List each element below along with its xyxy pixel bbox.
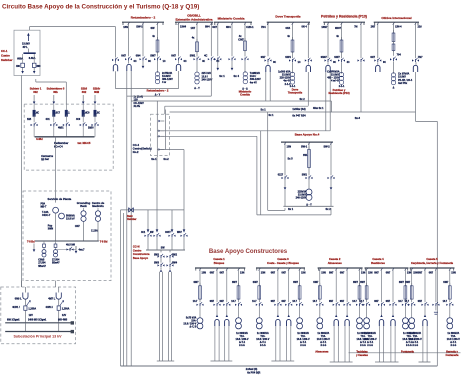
svg-text:0N7: 0N7 bbox=[429, 271, 434, 274]
transformer T-G3 bbox=[243, 72, 247, 84]
svg-text:Δ-Y-1: Δ-Y-1 bbox=[260, 341, 267, 344]
cable termination G4b bbox=[379, 315, 383, 327]
svg-text:500kVA: 500kVA bbox=[66, 214, 75, 217]
cable G5a down to feeder E2 (pair) bbox=[326, 72, 330, 131]
bus Base Apoyo No.4 bbox=[281, 141, 333, 143]
svg-text:Bastidores: Bastidores bbox=[371, 261, 385, 265]
cable termination G6a bbox=[376, 65, 380, 72]
value label G1 cable 1x(3x4)120 CU-15kV XLPE bbox=[134, 95, 145, 108]
svg-text:0N7: 0N7 bbox=[282, 271, 287, 274]
transformer T-G6 bbox=[391, 73, 395, 85]
bus panel 480V bbox=[35, 136, 95, 138]
value label T-G4 bbox=[278, 70, 291, 85]
svg-text:13.8 kV: 13.8 kV bbox=[66, 218, 75, 221]
cable pair x120.5/123.5 down to main bottom bus bbox=[121, 210, 124, 366]
svg-text:0N4: 0N4 bbox=[136, 55, 141, 58]
switch S-G4a bbox=[261, 56, 277, 64]
svg-text:0N7: 0N7 bbox=[370, 56, 375, 59]
value label T-G5a (below) bbox=[409, 332, 422, 347]
wire riser x172 to CC-N bbox=[171, 210, 173, 231]
svg-text:Techistas: Techistas bbox=[356, 351, 368, 354]
svg-text:SW7: SW7 bbox=[253, 282, 259, 284]
svg-text:T13-: T13- bbox=[260, 335, 265, 338]
svg-text:0C: 0C bbox=[148, 61, 151, 63]
svg-text:0C: 0C bbox=[97, 112, 100, 114]
wire drop G3a bbox=[319, 268, 326, 286]
svg-text:1x 300kVA: 1x 300kVA bbox=[297, 332, 309, 335]
value label Padbwrxbar 6Cv-C4 bbox=[54, 142, 68, 148]
value label T-G3d (below) bbox=[356, 332, 369, 347]
svg-text:1x 300kVA: 1x 300kVA bbox=[317, 332, 329, 335]
bus bar inside CC-1 bbox=[23, 49, 35, 55]
svg-text:SW-1: SW-1 bbox=[301, 146, 308, 149]
svg-text:225kVA: 225kVA bbox=[298, 190, 307, 193]
value labels above bus 1 bbox=[7, 319, 68, 322]
switch S-G6a bbox=[370, 56, 386, 64]
svg-text:7N: 7N bbox=[354, 25, 357, 28]
fuse F-G1d bbox=[232, 282, 240, 302]
cable G4c down to group bottom bbox=[391, 326, 395, 362]
switch S-G5b bbox=[334, 56, 350, 64]
svg-text:SW7: SW7 bbox=[313, 282, 319, 284]
svg-text:4 w/ 4Y: 4 w/ 4Y bbox=[331, 80, 340, 83]
switch S-G2b bbox=[190, 55, 206, 63]
svg-text:1,200A: 1,200A bbox=[62, 307, 70, 310]
fuse F-G2d bbox=[293, 282, 301, 302]
switch S-G3c bbox=[340, 301, 351, 317]
wire links between buses bbox=[25, 323, 58, 332]
svg-text:SW1: SW1 bbox=[190, 55, 196, 58]
svg-text:0217: 0217 bbox=[278, 173, 284, 176]
svg-text:27.504: 27.504 bbox=[52, 258, 60, 261]
svg-text:Almacenes: Almacenes bbox=[328, 261, 342, 265]
breaker CB-S2 (1200A) column 2 bbox=[46, 281, 70, 323]
switch S-G2d bbox=[292, 301, 303, 317]
cable termination G1b bbox=[215, 315, 219, 327]
svg-text:Medición: Medición bbox=[92, 204, 104, 208]
fuse F-G3d bbox=[353, 282, 361, 302]
svg-text:0N9 L: 0N9 L bbox=[15, 297, 22, 300]
switch S-G2a bbox=[252, 301, 263, 317]
value label bottom cable 2x3wd(3) 6x P54 B(R bbox=[246, 368, 261, 374]
svg-text:Bank: Bank bbox=[80, 204, 87, 208]
group label Caseta 5 / Carpintería, Herrería y Fontanería bbox=[411, 257, 454, 265]
value label T-G2 bbox=[202, 72, 213, 81]
svg-text:Constructora: Constructora bbox=[133, 252, 150, 256]
svg-text:1kB: 1kB bbox=[27, 119, 32, 121]
svg-text:6.3kA: 6.3kA bbox=[29, 57, 36, 60]
cable G3b down to group bottom bbox=[334, 326, 338, 362]
wire G5 drop b bbox=[335, 22, 342, 40]
value label T-BA4 bbox=[296, 190, 307, 199]
svg-text:y Casetas: y Casetas bbox=[356, 354, 368, 357]
svg-text:0N7: 0N7 bbox=[386, 271, 391, 274]
wire drop G4d bbox=[405, 268, 412, 286]
svg-text:13.8 /: 13.8 / bbox=[250, 75, 257, 78]
svg-text:Base Apoyo: Base Apoyo bbox=[133, 256, 149, 260]
label SW near CC-N bus bbox=[161, 248, 166, 250]
cable G5b down to group bottom bbox=[423, 326, 427, 362]
wire drop G3c bbox=[340, 268, 348, 302]
feeder group G1 bus: Retumbadero - 2 bbox=[122, 16, 164, 25]
feeder wire E1 (y112) to G6 drop c corner bbox=[170, 111, 416, 113]
svg-text:13N: 13N bbox=[413, 271, 418, 274]
wire G2 drop c bbox=[205, 22, 212, 56]
wire G4 drop c bbox=[302, 22, 310, 58]
svg-text:MB-T: MB-T bbox=[41, 206, 48, 209]
value label T-13A 44CC-T bbox=[42, 211, 51, 217]
wire link below T-8 bus bbox=[57, 249, 76, 251]
wire H1 (y210.4) to BA4 bottom left bbox=[268, 208, 285, 210]
svg-text:Ministerio Comida: Ministerio Comida bbox=[218, 16, 245, 20]
svg-text:Cx3P5kVA: Cx3P5kVA bbox=[327, 70, 340, 73]
svg-text:13.8kV/: 13.8kV/ bbox=[162, 75, 171, 78]
switch S-rail bbox=[112, 57, 119, 61]
fuse F-G3a bbox=[313, 282, 321, 302]
wire G5c down to feeder E1 bbox=[360, 62, 362, 112]
bus main bottom (y366) bbox=[121, 365, 438, 367]
wire riser x148 to CC-N bbox=[147, 210, 149, 231]
svg-text:2-1-b: 2-1-b bbox=[360, 344, 366, 347]
cable CC-N 1 down to bottom bbox=[159, 272, 162, 361]
panel box CC-1 Cuatro Switcher bbox=[14, 30, 40, 75]
wire drop G2c bbox=[282, 268, 290, 302]
svg-text:T13-: T13- bbox=[406, 335, 411, 338]
cable termination G4c bbox=[391, 315, 395, 327]
bus Caseta group 4 bbox=[365, 268, 409, 271]
svg-text:Sx 1: Sx 1 bbox=[269, 114, 275, 117]
svg-text:Sx 2: Sx 2 bbox=[326, 208, 332, 211]
svg-text:4w 4Y: 4w 4Y bbox=[283, 80, 290, 83]
svg-text:609 1C/gw1: 609 1C/gw1 bbox=[7, 320, 20, 322]
switch S-G2c bbox=[282, 301, 293, 317]
svg-text:13.8 / 230-V: 13.8 / 230-V bbox=[409, 338, 422, 341]
svg-text:480-120V: 480-120V bbox=[162, 78, 173, 81]
wire from CC-1 area into panel branch 3 bbox=[36, 79, 67, 104]
svg-text:Cuatro: Cuatro bbox=[1, 54, 10, 58]
svg-text:0C: 0C bbox=[134, 61, 137, 63]
bus Caseta group 2 bbox=[256, 268, 305, 271]
wire G2 drop b bbox=[191, 22, 198, 42]
svg-text:13.7: 13.7 bbox=[352, 301, 357, 303]
switch S-G3d bbox=[352, 301, 363, 317]
transformer T-G1 2x75kVA bbox=[155, 72, 159, 84]
svg-text:0N07: 0N07 bbox=[321, 56, 328, 59]
svg-text:C3kB: C3kB bbox=[38, 258, 44, 261]
svg-text:CC-4: CC-4 bbox=[133, 143, 140, 147]
value label T-G1d (below) bbox=[235, 332, 248, 347]
wire riser x157 junction to CC-N bbox=[156, 157, 158, 231]
wire G3 drop b bbox=[226, 22, 233, 56]
svg-text:13A-: 13A- bbox=[191, 320, 196, 323]
net label fuera servicio (red) bbox=[127, 215, 137, 221]
transformer T-G2d bbox=[297, 318, 303, 329]
load arrow G1b bbox=[142, 61, 145, 69]
svg-text:13.8 / 230-V: 13.8 / 230-V bbox=[297, 338, 310, 341]
panel box distribution (480V) bbox=[24, 104, 113, 170]
svg-text:13N: 13N bbox=[261, 271, 266, 274]
cable G2c down to group bottom bbox=[287, 326, 291, 361]
feeder wire E3 (y136.3) bbox=[157, 135, 257, 137]
transformer T-G3a bbox=[317, 318, 323, 329]
svg-text:Switcher: Switcher bbox=[1, 58, 13, 62]
transformer T-G4d bbox=[403, 318, 409, 329]
CC-N feeder drop 2 (switch + cable down) bbox=[167, 250, 178, 272]
cable G1c down to group bottom bbox=[225, 326, 229, 361]
cable termination G3c bbox=[345, 315, 349, 327]
svg-text:CC-N: CC-N bbox=[133, 245, 140, 249]
svg-text:2-1-b: 2-1-b bbox=[300, 344, 306, 347]
fuse F-G6 (double) bbox=[392, 30, 395, 56]
switch S-G5a bbox=[321, 56, 337, 64]
svg-text:7x98kVA: 7x98kVA bbox=[250, 72, 260, 75]
svg-text:Almacenes: Almacenes bbox=[315, 351, 329, 354]
svg-text:C/N-4: C/N-4 bbox=[395, 25, 402, 28]
svg-text:2N7: 2N7 bbox=[371, 25, 376, 28]
svg-text:6x P54 B(R: 6x P54 B(R bbox=[247, 371, 260, 374]
svg-text:C2N-1: C2N-1 bbox=[246, 26, 254, 29]
cable termination G4a bbox=[266, 65, 270, 72]
branch breakers inside panel bbox=[33, 104, 100, 122]
svg-text:0N7: 0N7 bbox=[374, 301, 379, 303]
svg-text:Caseta 4: Caseta 4 bbox=[372, 257, 384, 261]
svg-text:CU-15kV: CU-15kV bbox=[134, 102, 145, 105]
svg-text:Pxp: Pxp bbox=[48, 224, 53, 227]
switch S-G2a bbox=[171, 55, 187, 63]
bus Caseta group 1 bbox=[195, 268, 245, 271]
svg-text:Δ-Y-1: Δ-Y-1 bbox=[450, 341, 457, 344]
svg-text:0N7: 0N7 bbox=[374, 271, 379, 274]
feeder wire L2 (y96.1) bbox=[127, 95, 212, 97]
svg-text:Fontanería: Fontanería bbox=[446, 354, 459, 357]
svg-text:13.8 / 230-V: 13.8 / 230-V bbox=[317, 338, 330, 341]
terminal square bus 2 bbox=[71, 330, 74, 333]
svg-text:T13-: T13- bbox=[361, 335, 366, 338]
svg-text:220-120V: 220-120V bbox=[280, 77, 291, 80]
wire G3 drop a bbox=[212, 22, 218, 56]
svg-text:5x75 kVA: 5x75 kVA bbox=[186, 316, 197, 319]
breaker CB-B inside CC-1 bbox=[32, 54, 41, 68]
section box Subestacion Principal 13 kV bbox=[1, 287, 76, 344]
switch on link line bbox=[67, 247, 74, 251]
svg-text:0N7: 0N7 bbox=[271, 301, 276, 303]
svg-text:Sx-3: Sx-3 bbox=[355, 117, 361, 120]
wire: E1 drop x267.7 down to H1 bbox=[267, 112, 269, 210]
label Servicio de Planta bbox=[48, 197, 72, 201]
value label T-G4d (below) bbox=[402, 332, 415, 347]
svg-text:13.8 /: 13.8 / bbox=[202, 75, 209, 78]
net label Dove Transportis (below T-G4) bbox=[288, 85, 303, 95]
switch S-G1a bbox=[121, 55, 137, 63]
group label Caseta 3 / Costa - Caseta y Bloques bbox=[267, 257, 299, 265]
svg-text:Grounding: Grounding bbox=[77, 201, 91, 205]
svg-text:30M: 30M bbox=[94, 90, 100, 94]
net label Sx-3 at G5c tee bbox=[355, 117, 361, 120]
svg-text:0C: 0C bbox=[383, 62, 386, 64]
svg-text:Δ-Y-1: Δ-Y-1 bbox=[412, 341, 419, 344]
value label T-G5 bbox=[327, 70, 340, 82]
svg-text:Sx 1: Sx 1 bbox=[288, 208, 294, 211]
wire BA4c to bottom bus bbox=[330, 180, 333, 207]
transformer T-G4a bbox=[364, 318, 370, 329]
net label Sx 1 at E1 tee bbox=[261, 108, 267, 111]
label Grounding Bank bbox=[77, 201, 91, 208]
wire: E2 drop x260.7 down to H2 bbox=[260, 131, 262, 215]
wire G1 drop b bbox=[142, 22, 144, 56]
svg-text:2-1-1: 2-1-1 bbox=[290, 85, 296, 88]
svg-text:Retumbadero - 2: Retumbadero - 2 bbox=[131, 16, 156, 20]
svg-text:0N4: 0N4 bbox=[286, 27, 291, 30]
svg-text:1N7: 1N7 bbox=[191, 27, 196, 30]
svg-text:Sx-2: Sx-2 bbox=[163, 158, 169, 161]
value label 13.8kV 3P L bbox=[22, 43, 30, 50]
svg-text:6x P47 R54: 6x P47 R54 bbox=[292, 115, 306, 118]
svg-text:44CC-T: 44CC-T bbox=[42, 214, 51, 217]
cable termination G5a bbox=[326, 65, 330, 72]
svg-text:Centro: Centro bbox=[133, 248, 142, 252]
wire H2 (y214.9) to BA4 bottom right bbox=[257, 208, 331, 215]
wire G4 drop b bbox=[286, 22, 294, 40]
switch S-G5c bbox=[432, 302, 439, 310]
bus segment (cable landing) Caseta group 4 bbox=[375, 361, 399, 363]
bus Caseta group 5 bbox=[410, 268, 455, 271]
svg-text:4CB1 /: 4CB1 / bbox=[46, 306, 54, 309]
wire drop G1d bbox=[238, 268, 245, 286]
svg-text:3WN: 3WN bbox=[48, 228, 54, 231]
load arrow G3a + net label Sx 1 bbox=[217, 61, 226, 78]
value label T-G6 bbox=[398, 73, 413, 85]
svg-text:Clínica Internacional: Clínica Internacional bbox=[381, 16, 411, 20]
svg-text:Sx 2: Sx 2 bbox=[300, 98, 306, 101]
transformer T-G1d bbox=[236, 318, 242, 329]
value label load 2 49.5kW bbox=[52, 258, 60, 264]
svg-text:13N: 13N bbox=[202, 271, 207, 274]
svg-text:13.8 / 230-V: 13.8 / 230-V bbox=[235, 338, 248, 341]
switch S-G4b bbox=[285, 56, 301, 64]
value label T-G4a (below) bbox=[364, 332, 377, 347]
svg-text:2x75kVA: 2x75kVA bbox=[162, 72, 172, 75]
svg-text:0N 4: 0N 4 bbox=[302, 25, 308, 28]
svg-text:T13-: T13- bbox=[321, 335, 326, 338]
svg-text:1C: 1C bbox=[298, 62, 301, 64]
switch S-G1b bbox=[136, 55, 152, 63]
transformer T-G1a bbox=[197, 318, 203, 329]
svg-text:Transportis: Transportis bbox=[288, 91, 303, 95]
net label below T-G2 bbox=[194, 87, 200, 90]
svg-text:4w/ P5x: 4w/ P5x bbox=[398, 82, 408, 85]
svg-text:Bloques: Bloques bbox=[214, 261, 225, 265]
switch S-G5d bbox=[443, 301, 454, 317]
load branch 1 below T-8 bus (breaker + meter) bbox=[42, 241, 46, 257]
svg-text:12V: 12V bbox=[29, 314, 34, 317]
value label T-SP 500kVA bbox=[66, 214, 75, 220]
switch S-G2b bbox=[271, 301, 282, 317]
label Centro de Medicion bbox=[92, 201, 105, 208]
svg-text:Sx 1: Sx 1 bbox=[261, 108, 267, 111]
switch S-G6c bbox=[412, 56, 423, 62]
net label S2b3 302 bbox=[81, 87, 88, 94]
svg-text:1x 300kVA: 1x 300kVA bbox=[409, 332, 421, 335]
svg-text:Sx-1: Sx-1 bbox=[151, 158, 157, 161]
svg-text:0N07: 0N07 bbox=[335, 27, 342, 30]
svg-text:302: 302 bbox=[82, 90, 87, 94]
net label below T-BA4 bbox=[306, 204, 312, 207]
CC-N feeder drop 1 (switch + cable down) bbox=[154, 250, 165, 272]
svg-text:2x3wd (3): 2x3wd (3) bbox=[246, 368, 258, 371]
switch S-G4d bbox=[398, 301, 409, 317]
svg-text:13.7: 13.7 bbox=[231, 301, 236, 303]
svg-text:Base Apoyo Constructores: Base Apoyo Constructores bbox=[209, 248, 288, 255]
svg-text:0N4: 0N4 bbox=[205, 25, 210, 28]
wire G5 drop a bbox=[321, 22, 329, 58]
net label ('Techistas', 'y Casetas', 362) bbox=[356, 351, 368, 357]
svg-text:13N: 13N bbox=[451, 271, 456, 274]
fuse F-BA4 (tall) bbox=[303, 147, 310, 176]
value label C.13A bbox=[91, 229, 98, 232]
svg-text:Extensión Administrativa: Extensión Administrativa bbox=[175, 17, 212, 21]
svg-text:0N7: 0N7 bbox=[386, 301, 391, 303]
value label Cwrnwrxs (p) bar bbox=[41, 155, 54, 161]
fuse F-G5a bbox=[405, 282, 413, 302]
wire drop G1c bbox=[220, 268, 228, 302]
svg-text:Caseta 5: Caseta 5 bbox=[426, 257, 438, 261]
svg-text:Subterráneo 3: Subterráneo 3 bbox=[47, 87, 65, 91]
svg-text:Subterr 1: Subterr 1 bbox=[30, 87, 42, 91]
switch S-G4b bbox=[374, 301, 385, 317]
svg-text:SW7: SW7 bbox=[399, 282, 405, 284]
svg-text:4C: 4C bbox=[204, 55, 207, 58]
value label T-G3 bbox=[250, 72, 261, 84]
svg-text:Cwrnwrxs: Cwrnwrxs bbox=[41, 155, 54, 158]
svg-text:Retumbadero - 2: Retumbadero - 2 bbox=[147, 89, 169, 93]
feeder arrow CC-1 right bbox=[33, 67, 36, 73]
svg-text:4w 4Y: 4w 4Y bbox=[250, 81, 257, 84]
svg-text:0N7: 0N7 bbox=[282, 301, 287, 303]
svg-text:4wr.7: 4wr.7 bbox=[79, 249, 86, 252]
svg-text:1x 300kVA: 1x 300kVA bbox=[257, 332, 269, 335]
net label T-8 Bd left bbox=[27, 241, 35, 244]
fuse F-G1 bbox=[152, 35, 159, 57]
switch S-G4c bbox=[386, 301, 397, 317]
group label Caseta 1 / Bloques bbox=[213, 257, 225, 265]
wire G2 drop a bbox=[178, 22, 187, 56]
svg-text:13N: 13N bbox=[361, 271, 366, 274]
svg-text:0N7: 0N7 bbox=[271, 271, 276, 274]
svg-text:CN7: CN7 bbox=[75, 225, 80, 228]
svg-text:SW7: SW7 bbox=[443, 282, 449, 284]
svg-text:13N: 13N bbox=[301, 271, 306, 274]
svg-text:Residencia (P13): Residencia (P13) bbox=[328, 91, 349, 95]
wire drop G1b bbox=[210, 268, 218, 302]
switch S-G4a bbox=[359, 301, 370, 317]
section label Base Apoyo No.4 bbox=[295, 132, 320, 136]
wire: L3 drop x331.4 to E1 bbox=[330, 101, 332, 112]
svg-text:SW: SW bbox=[151, 27, 156, 30]
svg-text:1x300 kVA: 1x300 kVA bbox=[278, 70, 291, 73]
wire drop G5b bbox=[418, 268, 426, 302]
wire BA4 drop c + label SW-2 bbox=[324, 142, 332, 175]
svg-text:13.7: 13.7 bbox=[313, 301, 318, 303]
cable G1b down to group bottom bbox=[215, 326, 219, 361]
svg-text:SW-1: SW-1 bbox=[136, 24, 143, 28]
svg-text:No.2: No.2 bbox=[133, 150, 139, 154]
switch S-G1b bbox=[210, 301, 221, 317]
transformer T-G5d bbox=[447, 318, 453, 329]
svg-text:13.8 / 230-V: 13.8 / 230-V bbox=[183, 323, 196, 326]
svg-text:216: 216 bbox=[418, 25, 423, 28]
svg-text:0N7: 0N7 bbox=[340, 271, 345, 274]
svg-text:Petróleo y Residencia (P13): Petróleo y Residencia (P13) bbox=[321, 15, 367, 19]
